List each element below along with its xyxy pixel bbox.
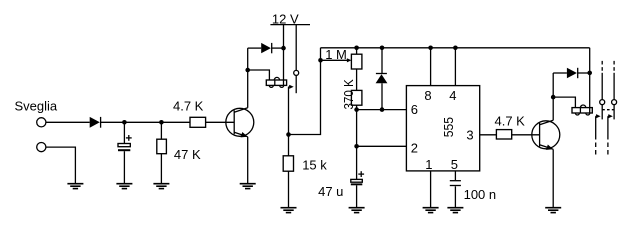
wire R2 to ground	[160, 154, 162, 184]
svg-text:5: 5	[451, 157, 458, 172]
pin 8 stub	[430, 48, 432, 86]
switch SW1 lever arrow	[289, 85, 294, 89]
wire C2 to ground	[356, 185, 358, 207]
svg-text:4.7 K: 4.7 K	[173, 98, 204, 113]
wire pin3	[480, 134, 497, 136]
supply 12V bar	[270, 24, 310, 26]
node rail pin4	[453, 46, 458, 51]
wire coil left terminal	[248, 70, 270, 80]
wire supply drop left	[283, 25, 285, 80]
svg-text:100 n: 100 n	[464, 187, 497, 202]
wire lever B dashed bottom	[607, 143, 609, 156]
potentiometer P1 wiper arrow	[321, 58, 352, 62]
node lever junction	[286, 132, 291, 137]
svg-text:Sveglia: Sveglia	[15, 98, 58, 113]
wire SW1 lever down	[288, 87, 290, 135]
node pin6 diode	[380, 107, 385, 112]
switch lever B arrow	[608, 114, 613, 118]
ground C3	[447, 208, 463, 213]
resistor R3 4.7K	[496, 130, 511, 139]
capacitor C2 47u	[351, 171, 364, 185]
switch lever A arrow	[596, 114, 601, 118]
wire collector to D2	[248, 47, 262, 49]
wire P1 to R5	[356, 69, 358, 90]
relay coil K1	[266, 77, 286, 87]
wire Q1 emitter to ground	[247, 137, 249, 184]
capacitor C1 electrolytic	[118, 135, 132, 151]
wire collector to D4	[553, 72, 567, 74]
wire lever junction to rail riser	[289, 48, 321, 135]
wire C1 to ground	[123, 151, 125, 183]
ground C2	[349, 208, 365, 213]
svg-text:3: 3	[466, 128, 473, 143]
wire to capacitor C1	[123, 122, 125, 143]
wire contact A solid top	[601, 73, 603, 100]
wire contact A stub	[601, 105, 603, 120]
svg-text:8: 8	[424, 88, 431, 103]
terminal J1	[37, 118, 46, 127]
ground R2	[153, 184, 169, 189]
diode D2 flyback left	[261, 43, 272, 53]
node rail diode	[380, 46, 385, 51]
node cap junction	[122, 120, 127, 125]
switch SW1 contact	[294, 70, 299, 75]
wire Q2 emitter to ground	[552, 149, 554, 207]
ground C1	[116, 184, 132, 189]
diode D3 reset	[376, 48, 388, 110]
wire pin2	[357, 145, 407, 147]
wire R3 to Q2 base	[512, 134, 540, 136]
ground R4	[281, 208, 297, 213]
transistor Q1	[226, 108, 254, 140]
svg-text:1 M: 1 M	[325, 47, 347, 62]
switch contact B	[612, 100, 617, 105]
wire J2 to ground	[46, 147, 76, 183]
node Q2 coil tap	[551, 95, 556, 100]
wire supply drop right	[295, 25, 297, 71]
wire lever A down	[595, 116, 597, 139]
ground pin1	[423, 208, 439, 213]
svg-text:4.7 K: 4.7 K	[495, 114, 526, 129]
wire contact B solid top	[613, 73, 615, 100]
pin 1 stub to ground	[430, 171, 432, 208]
wire contact B stub	[613, 105, 615, 120]
wire J1 to diode	[46, 121, 90, 123]
wire to resistor R2	[160, 122, 162, 139]
resistor R1 4.7K	[190, 117, 206, 127]
diode D1 input	[90, 117, 101, 128]
wire pin6 to pin2	[356, 110, 358, 147]
svg-text:555: 555	[441, 117, 456, 137]
node rail pin8	[428, 46, 433, 51]
wire pin6	[357, 109, 407, 111]
resistor R2 47K	[157, 139, 167, 154]
wire diode to R1	[101, 121, 190, 123]
wire lever B down	[607, 116, 609, 139]
pin 4 stub	[454, 48, 456, 86]
node wiper tap	[318, 58, 323, 63]
svg-text:4: 4	[449, 88, 456, 103]
node coil tap	[245, 68, 250, 73]
wire D4 to rail drop	[578, 72, 590, 74]
wire rail to P1	[356, 48, 358, 54]
wire contact B dashed top	[613, 61, 615, 71]
node pin6 pot	[354, 107, 359, 112]
wire R1 to Q1 base	[206, 121, 235, 123]
node 47K junction	[159, 120, 164, 125]
IC U1 555 box	[406, 86, 479, 171]
wire positive rail	[321, 47, 590, 49]
wire pin2 node to C2	[356, 146, 358, 179]
ground J2	[67, 184, 83, 189]
terminal J2	[37, 143, 46, 152]
svg-text:15 k: 15 k	[302, 157, 327, 172]
node rail pot	[354, 46, 359, 51]
resistor R5 370K	[351, 90, 362, 105]
wire lever to R4	[288, 135, 290, 156]
wire C3 to ground	[454, 186, 456, 207]
wire D2 to supply drop	[272, 47, 284, 49]
ground Q1	[240, 184, 256, 189]
wire coil K2 left terminal	[553, 97, 575, 108]
wire SW1 contact stub	[295, 75, 297, 93]
svg-text:47 u: 47 u	[318, 184, 343, 199]
svg-text:47 K: 47 K	[174, 147, 201, 162]
switch contact A	[600, 100, 605, 105]
node D2 cathode	[281, 46, 286, 51]
wire R4 to ground	[288, 171, 290, 207]
wire Q1 collector up	[247, 48, 249, 108]
wire Q2 collector up	[552, 73, 554, 120]
svg-text:6: 6	[411, 102, 418, 117]
ground Q2	[545, 208, 561, 213]
diode D4 flyback right	[567, 68, 578, 78]
node pin2	[354, 144, 359, 149]
potentiometer P1 1M body	[351, 54, 362, 69]
svg-text:2: 2	[411, 140, 418, 155]
wire lever A dashed bottom	[595, 143, 597, 156]
capacitor C3 100n	[450, 181, 461, 186]
linkage dashed	[602, 109, 614, 111]
relay coil K2	[572, 105, 592, 115]
node D4 cathode	[587, 71, 592, 76]
wire R5 to pin6 node	[356, 105, 358, 109]
transistor Q2	[532, 120, 560, 152]
wire contact A dashed top	[601, 61, 603, 71]
wire rail drop right	[589, 48, 591, 108]
svg-text:1: 1	[425, 157, 432, 172]
resistor R4 15k	[283, 156, 293, 171]
pin 5 stub	[454, 171, 456, 180]
